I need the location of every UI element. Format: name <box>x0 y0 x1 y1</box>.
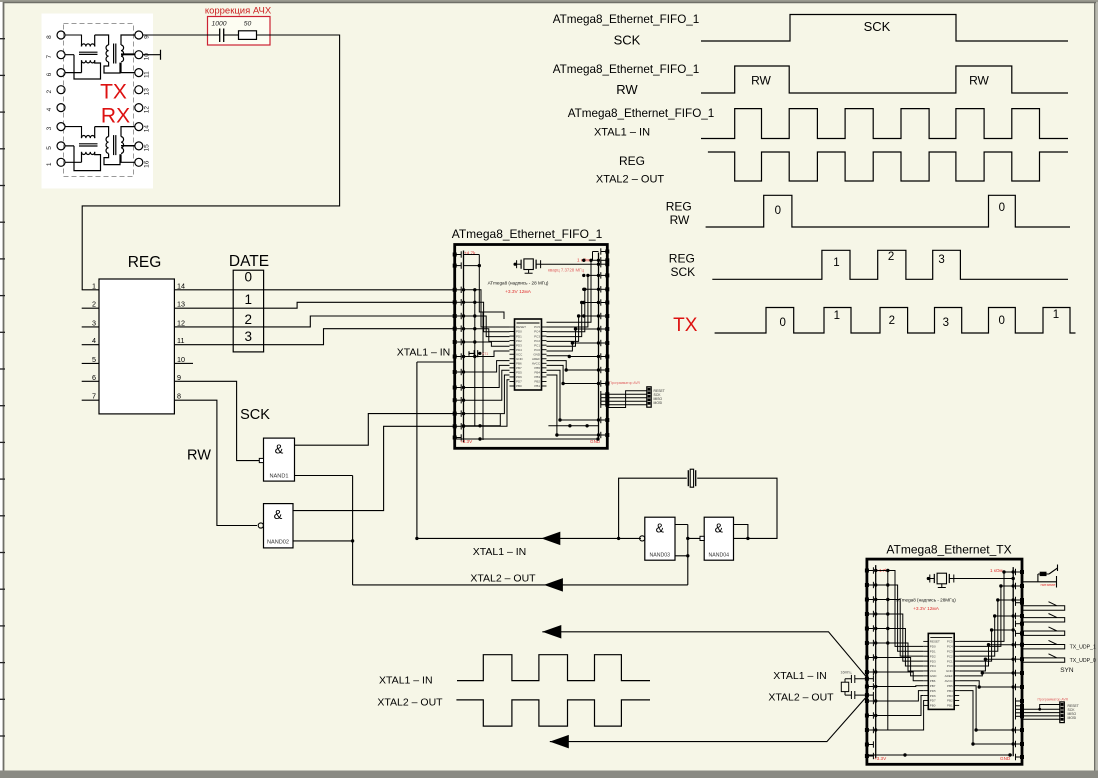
svg-text:SCK: SCK <box>240 407 270 423</box>
svg-text:15: 15 <box>144 144 151 152</box>
svg-text:ATmega8 (надпись - 28МГц): ATmega8 (надпись - 28МГц) <box>896 598 956 603</box>
svg-text:PB4: PB4 <box>947 689 953 693</box>
wire NAND3 outputs to NAND4 input <box>675 525 700 585</box>
svg-text:PD6: PD6 <box>516 375 522 379</box>
svg-text:RW: RW <box>969 74 989 88</box>
window left border <box>3 2 5 771</box>
svg-text:PC4: PC4 <box>534 330 540 334</box>
svg-text:PD2: PD2 <box>930 654 936 658</box>
window bottom status bar <box>0 771 1098 779</box>
svg-text:2: 2 <box>888 251 894 263</box>
svg-text:5: 5 <box>46 146 53 150</box>
svg-text:PD2: PD2 <box>516 339 522 343</box>
svg-text:кварц 7.3728 МГц: кварц 7.3728 МГц <box>548 268 585 273</box>
FIFO block U_FIFO IC U1 <box>515 319 542 390</box>
svg-text:PC2: PC2 <box>947 654 953 658</box>
svg-text:NAND02: NAND02 <box>267 540 289 546</box>
TX block U_TX IC pins <box>923 640 928 642</box>
svg-text:1: 1 <box>46 162 53 166</box>
svg-text:6: 6 <box>92 373 96 382</box>
svg-text:Программатор AVR: Программатор AVR <box>1037 698 1068 702</box>
svg-text:3: 3 <box>943 317 949 329</box>
FIFO wires to SPI connector <box>607 393 647 395</box>
svg-text:TX_UDP_0: TX_UDP_0 <box>1070 658 1096 664</box>
waveform XTAL1-IN clock <box>701 109 1068 139</box>
FIFO block U_FIFO IC pins <box>510 326 515 328</box>
svg-text:3: 3 <box>244 329 252 344</box>
svg-text:PC1: PC1 <box>947 659 953 663</box>
svg-text:REG: REG <box>666 200 692 214</box>
svg-text:+3.3V: +3.3V <box>874 756 887 761</box>
wire transformer pin9 to RC network <box>143 34 220 36</box>
svg-text:PB6: PB6 <box>930 679 936 683</box>
TX block left quartz outside <box>845 675 867 699</box>
svg-text:GND: GND <box>516 357 524 361</box>
wire NAND4 output loop <box>734 525 748 539</box>
waveform TX <box>715 308 1076 334</box>
svg-text:PB5: PB5 <box>534 366 540 370</box>
svg-text:XTAL1 – IN: XTAL1 – IN <box>773 670 827 682</box>
svg-text:PB2: PB2 <box>947 699 953 703</box>
svg-text:PB1: PB1 <box>534 384 540 388</box>
svg-text:XTAL1 – IN: XTAL1 – IN <box>379 675 433 687</box>
TX wires to bottom connector <box>1022 708 1060 710</box>
REG right pins 14-8 <box>174 289 180 291</box>
TX internal right wire fan <box>959 572 1013 641</box>
svg-text:PB1: PB1 <box>947 704 953 708</box>
wire REG pin9 SCK to NAND1 input <box>180 381 259 460</box>
svg-text:50: 50 <box>244 21 252 28</box>
TX block U_TX quartz wire to bus <box>954 578 1013 580</box>
svg-text:2: 2 <box>46 90 53 94</box>
svg-text:DATE: DATE <box>229 253 269 270</box>
waveform REG SCK <box>712 250 1068 279</box>
waveform RW <box>701 66 1068 93</box>
FIFO block U_FIFO left bus <box>463 251 465 443</box>
svg-text:GND: GND <box>1000 756 1011 761</box>
svg-text:SCK: SCK <box>614 33 641 48</box>
wire REG pin12 to FIFO (data 2) <box>180 316 455 327</box>
svg-text:XTAL1 – IN: XTAL1 – IN <box>594 127 650 139</box>
svg-text:3: 3 <box>92 318 96 327</box>
transformer TX T1 windings <box>65 35 81 44</box>
svg-text:RW: RW <box>616 82 638 97</box>
svg-text:SYN: SYN <box>1060 667 1074 674</box>
FIFO block U_FIFO quartz circuit <box>520 260 522 269</box>
transformer left pins <box>57 31 65 39</box>
FIFO block U_FIFO outer border <box>455 245 608 449</box>
transformer RX T2 windings <box>65 127 81 136</box>
svg-text:PD0: PD0 <box>516 330 522 334</box>
svg-text:Программатор AVR: Программатор AVR <box>609 381 640 385</box>
svg-text:0: 0 <box>999 202 1005 214</box>
svg-text:12: 12 <box>177 318 185 327</box>
svg-text:ATmega8_Ethernet_FIFO_1: ATmega8_Ethernet_FIFO_1 <box>452 227 603 241</box>
svg-text:4: 4 <box>46 107 53 111</box>
svg-text:ATmega8_Ethernet_TX: ATmega8_Ethernet_TX <box>886 543 1011 557</box>
svg-text:XTAL2 – OUT: XTAL2 – OUT <box>768 692 834 704</box>
TX block U_TX right pin connectors <box>1020 570 1024 574</box>
svg-text:PD7: PD7 <box>930 699 936 703</box>
svg-text:GND: GND <box>946 669 954 673</box>
svg-text:PB5: PB5 <box>947 684 953 688</box>
svg-text:PD1: PD1 <box>930 649 936 653</box>
svg-text:PD4: PD4 <box>516 348 522 352</box>
left ruler ticks <box>0 38 5 40</box>
svg-text:RW: RW <box>751 74 771 88</box>
svg-text:PC1: PC1 <box>534 343 540 347</box>
FIFO block U_FIFO left pin connectors <box>453 253 457 257</box>
svg-text:1: 1 <box>834 310 840 322</box>
svg-text:16МГц: 16МГц <box>841 671 852 675</box>
svg-text:8: 8 <box>46 35 53 39</box>
svg-text:PC5: PC5 <box>947 640 953 644</box>
crystal feedback wire <box>619 478 777 538</box>
TX block U_TX quartz circuit <box>933 574 935 583</box>
svg-text:AREF: AREF <box>945 674 953 678</box>
svg-text:ATmega8_Ethernet_FIFO_1: ATmega8_Ethernet_FIFO_1 <box>553 63 700 76</box>
svg-text:PC2: PC2 <box>534 339 540 343</box>
svg-text:RESET: RESET <box>516 325 526 329</box>
svg-text:PD4: PD4 <box>930 664 936 668</box>
svg-text:PB0: PB0 <box>930 704 936 708</box>
svg-text:TX: TX <box>100 81 127 104</box>
wire REG pin11 to FIFO (data 3) <box>180 329 455 345</box>
FIFO external SPI connector <box>647 387 651 407</box>
svg-text:XTAL1 – IN: XTAL1 – IN <box>397 347 451 359</box>
wire XTAL2-OUT line <box>353 584 688 586</box>
TX external bottom connector <box>1060 702 1065 723</box>
svg-text:REG: REG <box>669 252 695 266</box>
svg-text:0: 0 <box>779 317 785 329</box>
svg-text:PB3: PB3 <box>534 375 540 379</box>
svg-text:PC3: PC3 <box>534 334 540 338</box>
waveform SCK <box>701 15 1068 42</box>
svg-text:RESET: RESET <box>930 640 940 644</box>
svg-text:1: 1 <box>833 257 839 269</box>
svg-text:0: 0 <box>244 270 252 285</box>
svg-text:MOSI: MOSI <box>1068 716 1077 720</box>
svg-text:16: 16 <box>144 160 151 168</box>
svg-text:3: 3 <box>938 254 944 266</box>
TX block U_TX left pin connectors <box>865 569 869 573</box>
transformer right pins <box>135 31 143 39</box>
DATE block <box>233 270 263 352</box>
TX bottom full-width wire <box>869 754 1013 756</box>
svg-text:REG: REG <box>128 254 162 271</box>
svg-text:13: 13 <box>177 300 185 309</box>
FIFO top-right inner wires <box>593 252 599 261</box>
svg-text:NAND04: NAND04 <box>709 553 730 559</box>
svg-text:PD3: PD3 <box>516 343 522 347</box>
svg-text:PD0: PD0 <box>930 645 936 649</box>
svg-text:0: 0 <box>775 205 781 217</box>
svg-text:PC0: PC0 <box>534 348 540 352</box>
FIFO block U_FIFO right bus <box>598 253 600 441</box>
svg-text:PC3: PC3 <box>947 649 953 653</box>
svg-text:PD5: PD5 <box>516 371 522 375</box>
svg-text:TX_UDP_1: TX_UDP_1 <box>1070 645 1096 651</box>
svg-text:MOSI: MOSI <box>654 401 663 405</box>
NAND4 gate <box>704 517 733 560</box>
svg-text:7: 7 <box>46 55 53 59</box>
correction network red box <box>208 17 271 46</box>
svg-text:2: 2 <box>92 300 96 309</box>
svg-text:XTAL2 – OUT: XTAL2 – OUT <box>377 697 443 709</box>
svg-text:ATmega8_Ethernet_FIFO_1: ATmega8_Ethernet_FIFO_1 <box>553 13 700 26</box>
transformer module dashed outline <box>64 24 134 177</box>
svg-text:1: 1 <box>92 281 96 290</box>
wire arrow to TX XTAL1 <box>542 632 868 679</box>
FIFO top-left inner wires <box>464 255 480 266</box>
svg-text:AVCC: AVCC <box>532 362 541 366</box>
wire NAND1 output to FIFO XTAL row <box>295 414 455 446</box>
svg-text:PB3: PB3 <box>947 694 953 698</box>
TX internal left wire fan <box>876 571 924 647</box>
TX block U_TX left bus <box>875 565 877 758</box>
NAND2 gate <box>264 504 294 548</box>
svg-text:0: 0 <box>998 315 1004 327</box>
wire REG pin14 to FIFO (data 0) <box>180 289 455 291</box>
svg-text:7: 7 <box>92 392 96 401</box>
svg-text:VCC: VCC <box>930 669 937 673</box>
svg-text:14: 14 <box>177 281 185 290</box>
svg-text:PB7: PB7 <box>930 684 936 688</box>
svg-text:PC5: PC5 <box>534 325 540 329</box>
svg-text:6: 6 <box>46 72 53 76</box>
svg-text:GND: GND <box>533 352 541 356</box>
FIFO block U_FIFO quartz wire to bus <box>541 263 599 265</box>
svg-text:питание: питание <box>1040 582 1056 587</box>
FIFO inner vertical wire <box>482 312 484 440</box>
svg-text:AVCC: AVCC <box>945 679 954 683</box>
TX block U_TX IC U1 <box>928 633 954 709</box>
wire XTAL1-IN line <box>417 362 641 538</box>
wire RC to REG pin1 (big loop) <box>82 35 339 290</box>
svg-text:1: 1 <box>244 292 252 307</box>
FIFO internal left wire fan <box>464 290 510 327</box>
FIFO secondary left vertical <box>474 290 476 426</box>
svg-text:5: 5 <box>92 355 96 364</box>
NAND1 gate <box>264 438 295 481</box>
svg-text:&: & <box>275 442 284 457</box>
wire arrow to TX XTAL2 <box>550 695 868 742</box>
svg-text:9: 9 <box>177 373 181 382</box>
svg-text:11: 11 <box>177 336 184 345</box>
FIFO XTAL oscillator caps inside <box>469 350 481 357</box>
svg-text:PD1: PD1 <box>516 334 522 338</box>
transformer module white panel <box>42 14 154 189</box>
svg-text:&: & <box>656 522 665 536</box>
REG left pins 1-7 <box>82 289 99 291</box>
svg-text:коррекция АЧХ: коррекция АЧХ <box>205 6 272 17</box>
svg-text:PB2: PB2 <box>534 380 540 384</box>
TX top-right fuse component <box>1022 565 1058 588</box>
svg-text:2: 2 <box>244 312 252 327</box>
REG block <box>99 279 174 414</box>
waveform XTAL1-IN bottom <box>457 655 650 681</box>
svg-text:PD6: PD6 <box>930 694 936 698</box>
svg-text:XTAL1 – IN: XTAL1 – IN <box>473 546 527 558</box>
svg-text:NAND1: NAND1 <box>270 474 289 480</box>
arrow on XTAL2-OUT line <box>544 578 563 592</box>
svg-text:XTAL2 – OUT: XTAL2 – OUT <box>470 573 536 585</box>
TX block U_TX right bus <box>1012 567 1014 756</box>
wire REG pin8 RW to NAND2 input <box>180 400 257 525</box>
svg-text:RW: RW <box>670 213 690 227</box>
svg-text:1000: 1000 <box>211 21 226 28</box>
TX block U_TX outer border <box>867 559 1022 764</box>
svg-text:8: 8 <box>177 392 181 401</box>
svg-text:4: 4 <box>92 336 96 345</box>
svg-text:10: 10 <box>144 53 151 61</box>
FIFO bottom full-width wire <box>456 438 599 440</box>
window top border <box>0 0 1098 2</box>
svg-text:PB7: PB7 <box>516 366 522 370</box>
svg-text:PD5: PD5 <box>930 689 936 693</box>
wire REG pin10 stub <box>180 362 193 364</box>
svg-text:PB4: PB4 <box>534 371 540 375</box>
svg-text:TX: TX <box>673 315 698 336</box>
svg-text:RW: RW <box>187 448 211 464</box>
svg-text:PD7: PD7 <box>516 380 522 384</box>
svg-text:1 кОм: 1 кОм <box>990 568 1003 573</box>
window right border <box>1094 2 1096 771</box>
svg-text:&: & <box>274 507 283 522</box>
svg-text:NAND03: NAND03 <box>650 553 671 559</box>
quartz crystal Q1 <box>687 470 689 486</box>
waveform XTAL2-OUT clock <box>708 152 1068 181</box>
svg-text:3: 3 <box>46 126 53 130</box>
svg-text:RX: RX <box>101 105 130 128</box>
svg-text:2: 2 <box>889 315 895 327</box>
waveform REG RW <box>706 195 1070 227</box>
svg-text:1: 1 <box>1053 309 1059 321</box>
svg-text:AREF: AREF <box>532 357 540 361</box>
svg-text:PB6: PB6 <box>516 362 522 366</box>
svg-text:+3.3V 12мА: +3.3V 12мА <box>505 289 532 295</box>
FIFO block U_FIFO right pin connectors <box>605 250 609 254</box>
TX inner vertical wire <box>887 571 889 731</box>
svg-text:REG: REG <box>619 154 645 168</box>
svg-text:XT1: XT1 <box>482 352 488 356</box>
transformer pin 10 termination stub <box>143 50 161 60</box>
svg-text:ATmega8 (надпись - 28 МГц): ATmega8 (надпись - 28 МГц) <box>488 281 549 286</box>
waveform XTAL2-OUT bottom <box>456 700 650 726</box>
svg-text:PD3: PD3 <box>930 659 936 663</box>
svg-text:VCC: VCC <box>516 352 523 356</box>
svg-text:PC0: PC0 <box>947 664 953 668</box>
svg-text:14: 14 <box>144 125 151 133</box>
svg-text:PB0: PB0 <box>516 384 522 388</box>
TX right switch contacts <box>1022 602 1065 611</box>
arrow on XTAL1-IN line <box>541 532 560 546</box>
svg-text:10: 10 <box>177 355 185 364</box>
wire REG pin13 to FIFO (data 1) <box>180 302 455 308</box>
FIFO internal right wire fan <box>547 260 599 322</box>
svg-text:+3.3V: +3.3V <box>460 439 473 444</box>
wire NAND2 lower output to XTAL2 line <box>293 476 353 585</box>
svg-text:GND: GND <box>930 674 938 678</box>
svg-text:13: 13 <box>144 88 151 96</box>
svg-text:SCK: SCK <box>670 265 695 279</box>
svg-text:SCK: SCK <box>864 19 891 34</box>
svg-text:&: & <box>715 522 724 536</box>
svg-text:12: 12 <box>144 106 151 114</box>
wire NAND1 lower output <box>295 475 353 477</box>
svg-text:ATmega8_Ethernet_FIFO_1: ATmega8_Ethernet_FIFO_1 <box>568 107 715 120</box>
wire NAND2 output to FIFO <box>293 426 455 510</box>
FIFO bottom row wires <box>464 414 599 426</box>
svg-text:XTAL2 – OUT: XTAL2 – OUT <box>596 174 665 186</box>
svg-text:11: 11 <box>144 71 151 78</box>
svg-text:PC4: PC4 <box>947 645 953 649</box>
svg-text:+3.3V 12мА: +3.3V 12мА <box>913 606 940 612</box>
NAND3 gate <box>645 517 675 560</box>
